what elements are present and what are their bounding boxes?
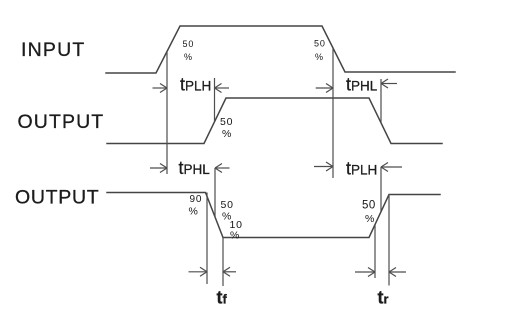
svg-text:OUTPUT: OUTPUT: [15, 187, 99, 209]
arrow left tr-right: [389, 268, 406, 277]
svg-text:50: 50: [221, 199, 234, 211]
arrow right row1-left tPLH-start: [153, 84, 168, 93]
svg-text:%: %: [230, 230, 239, 242]
arrow left row2-right tPLH-end: [381, 163, 402, 172]
marker V4 output1-fall-50%: [380, 79, 382, 123]
INPUT waveform: [106, 26, 455, 73]
svg-text:OUTPUT: OUTPUT: [18, 111, 105, 133]
arrow right row2-left tPHL-start: [150, 164, 167, 173]
svg-text:INPUT: INPUT: [21, 39, 86, 61]
svg-text:50: 50: [183, 39, 195, 49]
svg-text:%: %: [315, 52, 323, 62]
arrow left tf-right: [223, 267, 236, 276]
svg-text:tPHL: tPHL: [179, 158, 211, 178]
svg-text:%: %: [189, 206, 198, 218]
marker V2b output2-fall-50%: [214, 168, 216, 217]
svg-text:90: 90: [190, 194, 203, 205]
OUTPUT1 waveform: [107, 98, 442, 144]
svg-text:%: %: [365, 213, 374, 225]
marker V2 output1-rise-50%: [214, 78, 216, 122]
arrow right tf-left: [189, 267, 208, 276]
OUTPUT2 waveform: [107, 193, 440, 238]
marker V1 input-rise-50%: [166, 52, 168, 175]
marker tr-right 90%: [388, 195, 390, 286]
marker V4b output2-rise-50%: [380, 167, 382, 212]
svg-text:tr: tr: [378, 288, 389, 308]
arrow right row2-right tPLH-start: [314, 162, 333, 171]
svg-text:50: 50: [362, 200, 376, 212]
svg-text:tPHL: tPHL: [346, 75, 378, 95]
marker V3 input-fall-50%: [332, 48, 334, 178]
svg-text:50: 50: [314, 39, 326, 49]
marker tf-right 10%: [222, 238, 224, 287]
arrow left row2-left tPHL-end: [215, 164, 230, 173]
svg-text:50: 50: [220, 116, 233, 128]
marker tr-left: [374, 225, 376, 278]
arrow left row1-right tPHL-end: [381, 79, 397, 88]
svg-text:%: %: [184, 52, 192, 62]
svg-text:tPLH: tPLH: [346, 159, 377, 179]
svg-text:tf: tf: [217, 288, 228, 308]
arrow left row1-left tPLH-end: [215, 84, 230, 93]
arrow right row1-right tPHL-start: [316, 84, 333, 93]
svg-text:tPLH: tPLH: [180, 75, 211, 95]
svg-text:%: %: [222, 128, 231, 140]
marker tf-left 90%: [206, 193, 208, 285]
arrow right tr-left: [355, 268, 375, 277]
